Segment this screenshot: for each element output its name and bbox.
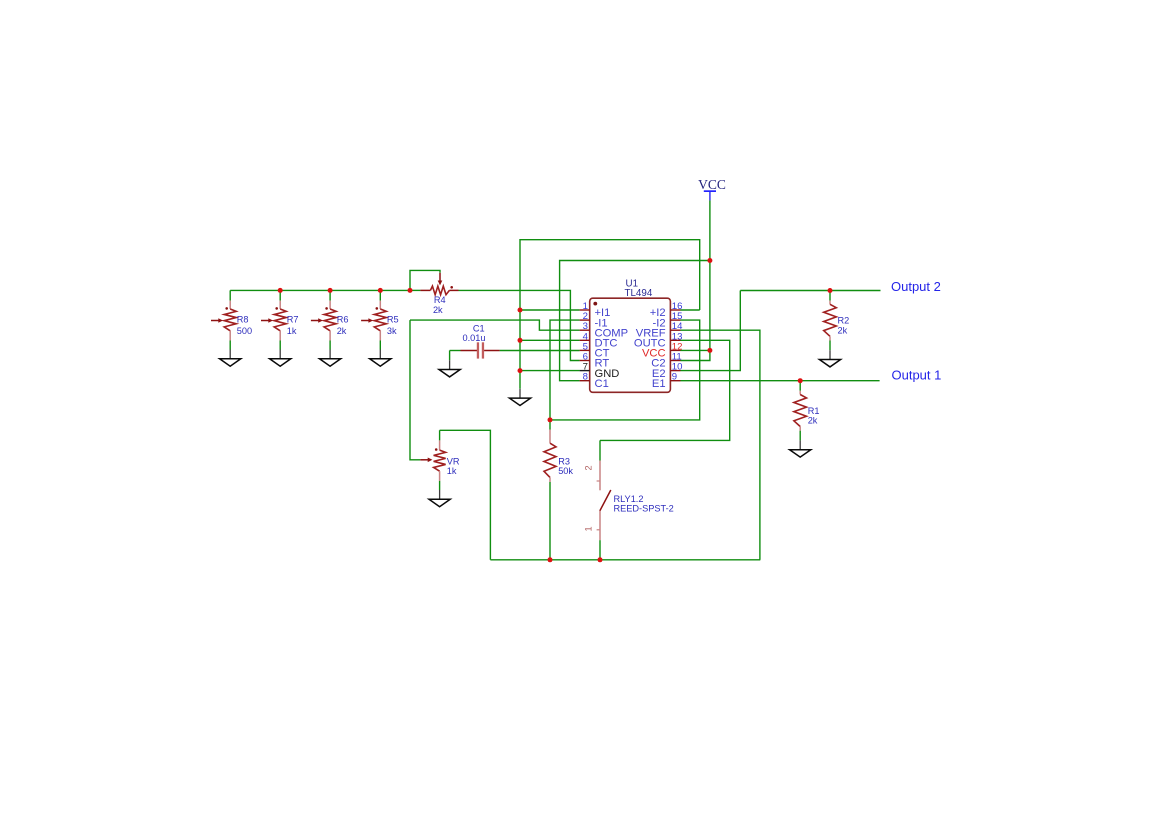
junction pin1 (518, 308, 523, 313)
svg-text:TL494: TL494 (625, 288, 653, 299)
junction bus/R4 wiper (408, 288, 413, 293)
svg-text:Output 1: Output 1 (892, 368, 942, 383)
junction VCC/pin12 (707, 348, 712, 353)
wire R5 bottom lead (379, 341, 381, 350)
pin 4 DTC (580, 331, 618, 349)
wire R3 bottom to rail (549, 482, 551, 560)
svg-text:R1: R1 (808, 406, 820, 416)
label R6 2k (337, 315, 349, 336)
svg-text:2k: 2k (838, 326, 848, 336)
svg-text:1k: 1k (287, 326, 297, 336)
wire R3 top lead (549, 420, 551, 430)
junction Output1/R1 (798, 378, 803, 383)
junction rail/R3 (548, 557, 553, 562)
capacitor C1 (450, 342, 500, 358)
label R4 2k (433, 295, 446, 315)
power symbol VCC (698, 177, 726, 201)
wire pin9 E1 / Output 1 net (681, 380, 880, 382)
pin 16 +I2 (650, 301, 683, 319)
op-amp U1 TL494 body (590, 298, 671, 392)
wire main top bus (230, 289, 410, 291)
resistor R4 (pot, horizontal) (410, 273, 459, 295)
ground under R6 (329, 350, 331, 359)
wire pin15 -I2 down to node R3 (550, 320, 700, 420)
wire R4 right to pin6 RT (459, 290, 580, 360)
label R3 50k (558, 456, 573, 476)
svg-text:R4: R4 (434, 295, 446, 305)
pin 12 VCC (642, 341, 682, 359)
wire VR bottom lead (439, 481, 441, 490)
wire VR riser (410, 320, 420, 460)
label U1 TL494 (625, 278, 653, 298)
wire pin16 stub run (681, 309, 700, 311)
wire R7 top lead (279, 290, 281, 300)
pin 3 COMP (580, 321, 628, 339)
svg-text:R8: R8 (237, 315, 249, 325)
ground under R5 (379, 350, 381, 359)
svg-text:1: 1 (583, 526, 593, 531)
wire pin12 VCC stub run (681, 349, 710, 351)
pin 7 GND (580, 362, 620, 380)
wire R2 bottom lead (829, 341, 831, 351)
svg-text:500: 500 (237, 326, 252, 336)
svg-text:50k: 50k (558, 466, 573, 476)
wire pin1 from left vertical (520, 309, 580, 311)
junction bus/R6 (328, 288, 333, 293)
wire R7 bottom lead (279, 341, 281, 350)
svg-text:2: 2 (583, 465, 593, 470)
svg-text:2k: 2k (337, 326, 347, 336)
svg-text:8: 8 (583, 372, 588, 383)
pin 6 RT (580, 352, 610, 370)
pin 9 E1 (652, 372, 681, 390)
wire pin13 OUTC to relay top (600, 340, 730, 440)
junction R3 top node (548, 417, 553, 422)
wire pin14 VREF down to bottom rail (681, 330, 760, 560)
ground under VR (439, 490, 441, 499)
pin 13 OUTC (634, 331, 683, 349)
junction VCC/pin8 wire (707, 258, 712, 263)
label R7 1k (287, 315, 299, 336)
pin 2 -I1 (580, 311, 608, 329)
junction pin4 (518, 338, 523, 343)
label R5 3k (387, 315, 399, 336)
svg-text:R7: R7 (287, 315, 299, 325)
svg-text:1k: 1k (447, 466, 457, 476)
svg-text:9: 9 (672, 372, 677, 383)
resistor R6 (pot) (311, 301, 336, 341)
svg-text:R3: R3 (558, 456, 570, 466)
wire VR top over to bottom rail (440, 430, 491, 560)
ground under left IC vertical (519, 389, 521, 398)
svg-text:2k: 2k (433, 305, 443, 315)
wire COMP step from VR riser (410, 320, 580, 330)
wire pin8 C1 up and over to VCC (560, 261, 710, 381)
switch RLY1.2 REED-SPST-2 (597, 440, 611, 559)
svg-text:VCC: VCC (698, 177, 726, 192)
ground under C1 (449, 360, 451, 369)
svg-text:0.01u: 0.01u (463, 333, 486, 343)
label R2 2k (838, 316, 850, 336)
wire Output 2 net (740, 290, 880, 292)
resistor R1 (794, 391, 807, 431)
ground under R1 (799, 440, 801, 449)
label R8 500 (237, 315, 252, 336)
resistor R8 (pot) (211, 301, 236, 341)
svg-text:Output 2: Output 2 (891, 279, 941, 294)
svg-text:RLY1.2: RLY1.2 (614, 494, 644, 504)
pin 15 -I2 (653, 311, 683, 329)
pin 11 C2 (651, 352, 681, 370)
resistor R5 (pot) (361, 301, 386, 341)
wire VR top lead (439, 430, 441, 440)
wire R1 top lead (799, 381, 801, 391)
junction pin7 (518, 368, 523, 373)
resistor R7 (pot) (261, 301, 286, 341)
wire pin7 GND from left vertical (520, 370, 580, 372)
svg-text:E1: E1 (652, 378, 666, 390)
label C1 0.01u (463, 323, 486, 343)
pin 8 C1 (580, 372, 609, 390)
svg-text:C1: C1 (473, 323, 485, 333)
wire R8 top lead (229, 290, 231, 300)
wire R6 bottom lead (329, 341, 331, 350)
wire R6 top lead (329, 290, 331, 300)
svg-text:REED-SPST-2: REED-SPST-2 (614, 503, 674, 513)
wire pin11 C2 to VCC rail (681, 351, 710, 361)
svg-text:R2: R2 (838, 316, 850, 326)
wire C1 to pin5 CT (500, 350, 580, 352)
wire pin4 DTC from left vertical (520, 339, 580, 341)
wire R2 top lead (829, 291, 831, 301)
wire pin2 -I1 down to R3 node (550, 320, 580, 420)
junction bus/R7 (278, 288, 283, 293)
label R1 2k (808, 406, 820, 426)
junction rail/relay (598, 557, 603, 562)
wire R8 bottom lead (229, 341, 231, 350)
pin 10 E2 (652, 362, 683, 380)
pin 5 CT (580, 341, 610, 359)
pin 1 +I1 (580, 301, 611, 319)
ground under R7 (279, 350, 281, 359)
wire bottom rail (490, 559, 760, 561)
wire C1 left to ground (449, 351, 451, 361)
ground under R2 (829, 350, 831, 359)
svg-text:R6: R6 (337, 315, 349, 325)
ground under R8 (229, 350, 231, 359)
svg-text:VR: VR (447, 456, 460, 466)
svg-text:2k: 2k (808, 416, 818, 426)
wire R1 bottom lead (799, 431, 801, 441)
junction Output2/R2 (828, 288, 833, 293)
svg-text:R5: R5 (387, 315, 399, 325)
wire VCC rail down (709, 200, 711, 350)
svg-text:3k: 3k (387, 326, 397, 336)
wire R4 wiper loop (410, 270, 440, 290)
svg-text:C1: C1 (595, 378, 609, 390)
resistor R3 (544, 430, 556, 483)
wire pin10 E2 up to Output 2 (681, 291, 741, 371)
label VR 1k (447, 456, 460, 476)
label RLY1.2 REED-SPST-2 (614, 494, 674, 514)
resistor R2 (824, 301, 837, 341)
wire net-A top run (pin16 to left vertical) (520, 240, 700, 389)
wire R5 top lead (379, 290, 381, 300)
pin 14 VREF (636, 321, 683, 339)
resistor VR (pot) (420, 440, 445, 481)
junction bus/R5 (378, 288, 383, 293)
